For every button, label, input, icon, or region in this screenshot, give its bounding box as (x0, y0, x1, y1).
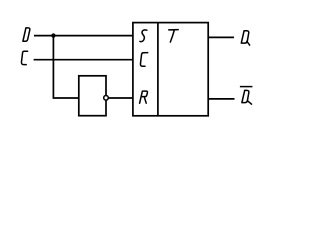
pin label S (140, 30, 147, 42)
wire vertical from D junction down (52, 36, 54, 98)
label C (input) (21, 51, 27, 64)
wire Q output (208, 36, 234, 38)
pin label C (140, 53, 147, 67)
overline of Q-bar (240, 86, 253, 88)
inverter output bubble (104, 96, 109, 101)
wire inverter output to R input (108, 97, 133, 99)
node junction dot on D wire (51, 33, 55, 37)
wire C input (34, 59, 134, 61)
flip-flop control column divider (157, 23, 159, 116)
flip-flop U1 box (133, 23, 208, 116)
label D (input) (23, 28, 30, 41)
inverter U2 box (79, 76, 106, 116)
wire D input (34, 35, 133, 37)
pin label R (140, 91, 148, 103)
wire Q-bar output (208, 98, 234, 100)
wire horizontal into inverter input (53, 97, 79, 99)
label Q (output) (241, 31, 250, 46)
label Q-bar (output) (242, 90, 252, 104)
label T (device type) (169, 30, 179, 42)
